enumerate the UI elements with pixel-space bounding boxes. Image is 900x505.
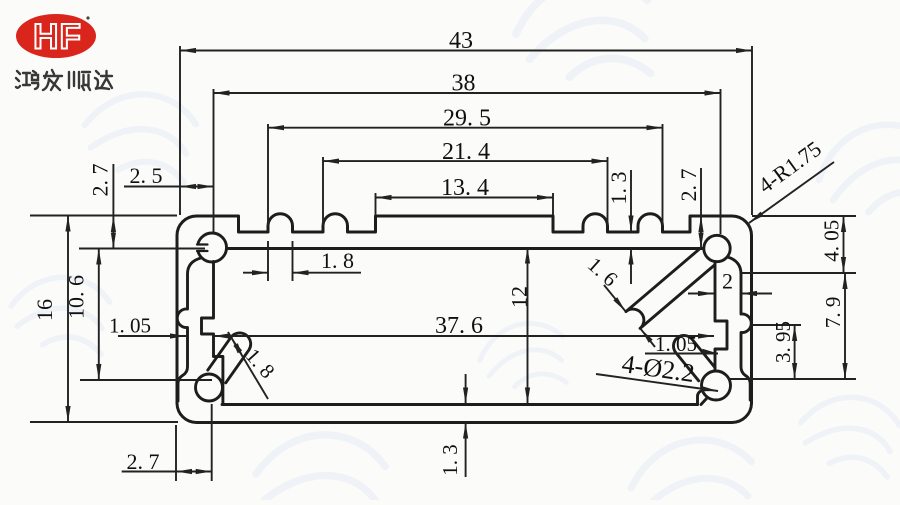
svg-text:2: 2 [722,269,733,294]
svg-text:2. 5: 2. 5 [130,163,163,188]
svg-text:13. 4: 13. 4 [441,175,489,201]
svg-text:1. 05: 1. 05 [655,332,697,356]
svg-text:21. 4: 21. 4 [442,139,490,165]
svg-text:10. 6: 10. 6 [64,275,89,319]
svg-text:1. 3: 1. 3 [606,172,631,205]
svg-text:38: 38 [452,71,476,97]
svg-text:3. 95: 3. 95 [771,321,795,363]
svg-text:29. 5: 29. 5 [443,106,491,132]
svg-text:1. 3: 1. 3 [438,444,462,476]
svg-text:2. 7: 2. 7 [676,169,701,202]
svg-text:4. 05: 4. 05 [820,220,844,262]
svg-text:2. 7: 2. 7 [127,449,160,474]
svg-text:1. 8: 1. 8 [321,248,354,273]
svg-text:1. 05: 1. 05 [109,314,151,338]
svg-text:43: 43 [449,28,473,54]
svg-text:2. 7: 2. 7 [88,164,113,197]
svg-text:HF: HF [33,18,82,57]
svg-text:7. 9: 7. 9 [821,297,845,329]
svg-text:16: 16 [32,299,57,321]
